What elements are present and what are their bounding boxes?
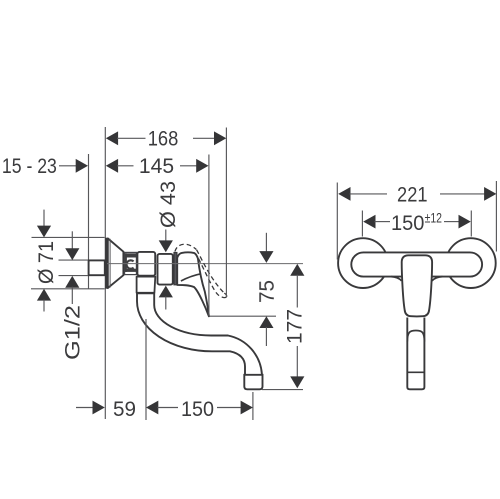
dimension 221 (338, 187, 350, 201)
handle raised position dashed upper line (197, 250, 225, 293)
wire: extension line 150 right (470, 211, 472, 237)
handle paddle front view (402, 255, 432, 316)
dimension diameter 71 (43, 210, 45, 227)
wire: extension line 150 left (361, 211, 363, 237)
handle cap strip (174, 253, 177, 285)
svg-text:150: 150 (181, 398, 214, 421)
svg-text:145: 145 (139, 155, 174, 178)
cone right face (123, 252, 125, 276)
union nut (125, 252, 137, 274)
lever handle side view (177, 252, 209, 316)
G1/2 wall nipple (89, 260, 105, 275)
svg-text:15 - 23: 15 - 23 (2, 155, 57, 178)
svg-text:150: 150 (391, 212, 424, 235)
svg-text:221: 221 (397, 184, 428, 207)
dimension 59 (76, 407, 94, 409)
right escutcheon circle (446, 238, 496, 288)
body bar front view (351, 252, 482, 276)
svg-text:±12: ±12 (425, 210, 443, 226)
wire: extension line handle tip y=316.2 (210, 315, 277, 317)
spout tube (137, 293, 262, 375)
wire: extension line nipple bottom y=275.6 (59, 275, 88, 277)
wire: extension line escutcheon bottom y=288.8 (31, 288, 105, 290)
aerator outlet (244, 375, 262, 390)
wire: extension line outlet bottom y=389.6 (262, 389, 303, 391)
wire: extension line x=209 (145 dim / handle tip) (208, 155, 210, 316)
handle shaft divider line (407, 371, 424, 373)
handle raised position dashed lower line (199, 259, 222, 298)
dimension 145 (106, 159, 118, 173)
dimension 75 (265, 233, 267, 252)
wire: extension line spout axis x=146 (145, 319, 147, 420)
handle raised position dashed tip (222, 293, 227, 297)
svg-text:59: 59 (113, 398, 136, 421)
handle shaft dome line (407, 331, 424, 342)
lever handle inner edge (181, 274, 201, 281)
fillet left of handle (391, 277, 402, 281)
escutcheon face plate (105, 238, 108, 289)
union nut band bottom (125, 269, 137, 272)
svg-text:Ø 71: Ø 71 (35, 241, 58, 284)
wire: extension line 221 left (336, 183, 338, 260)
svg-text:177: 177 (284, 309, 307, 344)
dimension 150 plus-minus 12 (363, 215, 375, 229)
fillet right of handle (432, 277, 442, 281)
handle raised position dashed arc (175, 244, 197, 251)
spout collar (137, 277, 156, 293)
cartridge housing (158, 254, 173, 285)
wire: extension line x=226.4 (168 dim / raised handle tip) (225, 128, 227, 298)
svg-text:75: 75 (256, 280, 279, 303)
handle shaft front view (407, 318, 424, 390)
left escutcheon circle (338, 238, 388, 288)
union nut band top (125, 253, 137, 257)
escutcheon face inner line (109, 239, 111, 288)
wire: extension line 221 right (495, 181, 497, 252)
dimension 150 bottom (146, 401, 158, 415)
union nut left column (125, 253, 127, 272)
wire: extension line escutcheon top y=237.4 (32, 236, 105, 238)
body cylinder (137, 252, 155, 276)
svg-text:168: 168 (148, 128, 179, 151)
dimension 177 (290, 264, 304, 276)
wire: extension line nipple top y=260.1 (59, 259, 88, 261)
wire: wall rear extension line x=88 (88, 154, 90, 289)
escutcheon cone (108, 238, 124, 288)
wire: wall face extension line x=105 (104, 127, 106, 419)
svg-text:Ø 43: Ø 43 (157, 181, 180, 228)
centerline (107, 263, 303, 265)
dimension 168 (106, 131, 118, 145)
wire: extension line outlet axis x=253 (252, 392, 254, 420)
dimension G1/2 (71, 231, 73, 249)
svg-text:G1/2: G1/2 (62, 305, 85, 360)
union nut highlight C arc (127, 260, 134, 268)
